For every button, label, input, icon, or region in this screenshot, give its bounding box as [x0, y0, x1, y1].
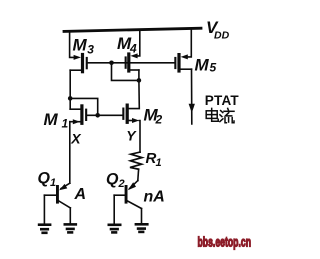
transistor M5 source arrow — [181, 54, 188, 59]
label VDD — [206, 18, 230, 42]
wire M5 drain (PTAT output) — [191, 69, 193, 124]
svg-text:A: A — [74, 186, 87, 203]
label dian (Chinese: electric) — [206, 108, 218, 121]
wire Q2 base to ground — [113, 195, 115, 223]
label A — [74, 186, 87, 203]
svg-text:nA: nA — [144, 189, 165, 206]
svg-text:Q: Q — [106, 171, 119, 188]
wire tap from node to M1-M2 gate bus — [70, 98, 98, 115]
resistor R1 — [130, 152, 142, 169]
wire diode tap from gate bus to M4 drain — [112, 63, 139, 81]
transistor M4 — [125, 52, 139, 72]
node dot on gate bus — [95, 113, 100, 118]
transistor M1 — [70, 104, 87, 125]
wire rail drop to M5 source — [188, 29, 191, 57]
node dot on left vertical (gate tap of M1/M2) — [68, 96, 73, 101]
label PTAT — [205, 93, 240, 108]
wire gate bus M3-M4-M5 — [88, 62, 175, 64]
transistor Q2 — [114, 181, 141, 209]
svg-text:Q: Q — [38, 170, 51, 187]
wire M4 drain down to M2 drain — [129, 70, 140, 109]
wire Q1 base to ground — [43, 195, 45, 223]
ground (Q1 base) — [39, 225, 50, 233]
transistor M3 — [70, 53, 88, 73]
transistor M5 — [174, 53, 191, 73]
svg-text:2: 2 — [155, 113, 163, 127]
wire M1 top lead — [70, 108, 80, 110]
svg-text:4: 4 — [129, 41, 137, 55]
wire Q1 collector to ground — [69, 208, 71, 223]
label Q2 — [106, 171, 125, 190]
svg-text:PTAT: PTAT — [205, 93, 240, 108]
label liu (Chinese: flow) — [220, 108, 234, 122]
svg-text:DD: DD — [214, 30, 230, 42]
ground (Q2 collector) — [136, 224, 147, 232]
svg-text:bbs.eetop.cn: bbs.eetop.cn — [198, 234, 252, 250]
node dot M4 drain / gate tap — [137, 78, 142, 83]
svg-text:3: 3 — [87, 43, 94, 57]
label M5 — [195, 55, 217, 74]
label Q1 — [38, 170, 57, 189]
svg-text:5: 5 — [210, 61, 217, 75]
label M2 — [144, 106, 163, 127]
svg-text:1: 1 — [50, 177, 56, 189]
label R1 — [146, 150, 162, 169]
label M4 — [117, 34, 137, 55]
transistor M4 source arrow — [130, 53, 137, 58]
transistor M1 source arrow — [73, 119, 80, 124]
label M1 — [44, 110, 69, 131]
svg-text:1: 1 — [62, 116, 69, 130]
label nA — [144, 189, 165, 206]
wire R1 to Q2 emitter — [137, 169, 140, 180]
svg-text:M: M — [73, 36, 88, 55]
svg-text:X: X — [70, 131, 82, 147]
transistor M2 source arrow — [132, 118, 139, 123]
arrow PTAT current direction — [189, 104, 195, 113]
wire M3 drain down to node of M1 (left vertical) — [69, 70, 71, 109]
label Y — [126, 128, 137, 144]
transistor Q1 — [44, 183, 70, 208]
wire M1-M2 gate bus — [87, 114, 122, 116]
svg-text:1: 1 — [156, 157, 162, 169]
wire rail drop to M3 source — [70, 31, 75, 58]
watermark bbs.eetop.cn — [198, 234, 252, 250]
transistor M2 — [122, 104, 132, 124]
svg-text:Y: Y — [126, 128, 137, 144]
svg-text:M: M — [195, 55, 210, 74]
wire M2 source corner down to R1 (node Y) — [138, 121, 141, 153]
wire VDD rail — [64, 28, 201, 31]
label X — [70, 131, 82, 147]
ground (Q2 base) — [109, 225, 120, 233]
svg-text:2: 2 — [118, 178, 125, 190]
label M3 — [73, 36, 95, 57]
transistor M3 source arrow — [74, 55, 81, 60]
wire node X down to Q1 emitter — [69, 122, 71, 184]
ground (Q1 collector) — [65, 224, 76, 232]
node dot on PMOS gate bus — [109, 61, 114, 66]
svg-text:M: M — [44, 110, 59, 129]
wire Q2 collector to ground — [141, 209, 143, 223]
wire rail drop to M4 source — [137, 30, 140, 56]
